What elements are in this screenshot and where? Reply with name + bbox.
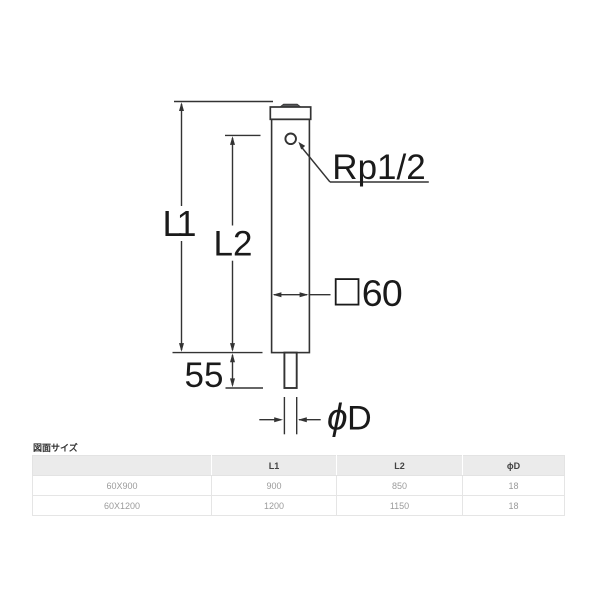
svg-text:Rp1/2: Rp1/2: [332, 148, 425, 187]
arrowheads: L2 top, L2 bottom: [230, 136, 235, 145]
arrowheads: phi-D left (points right), right (points left): [274, 417, 283, 422]
bottom extension line (body bottom): [173, 352, 263, 354]
square symbol of square-60: [336, 279, 359, 305]
svg-text:60: 60: [362, 272, 402, 314]
bottom stub pipe: [284, 353, 296, 388]
size table: [32, 455, 565, 516]
L2 top extension line: [225, 134, 261, 136]
column body: [272, 119, 310, 352]
L1 top extension line: [174, 101, 273, 103]
arrowheads: 55 top (up), bottom (down): [230, 353, 235, 362]
55 dimension line: [232, 355, 234, 385]
arrowheads: L1 top (up), L1 bottom (down): [179, 102, 184, 111]
phi-D extension line right: [296, 397, 298, 434]
arrowhead: leader (points up-left at circle): [298, 142, 305, 150]
leader line to Rp1/2: [301, 147, 330, 183]
svg-text:L2: L2: [214, 224, 253, 263]
phi-D right arrow line: [299, 419, 321, 421]
L2 dimension line: [232, 138, 234, 226]
svg-text:55: 55: [185, 356, 224, 395]
tap hole Rp1/2: [285, 134, 296, 145]
arrowheads: square-60 left, right: [273, 292, 282, 297]
lower extension line (stub bottom): [226, 387, 264, 389]
phi-D left arrow line: [259, 419, 281, 421]
cap: [270, 107, 310, 119]
table caption: [33, 441, 78, 454]
L1 dimension line: [181, 104, 183, 206]
phi-D extension line left: [283, 397, 285, 434]
square-60 dimension double arrow line: [274, 294, 307, 296]
svg-text:L1: L1: [163, 203, 196, 244]
svg-text:ϕD: ϕD: [327, 396, 371, 437]
cap top knob (trapezoid): [279, 104, 301, 107]
